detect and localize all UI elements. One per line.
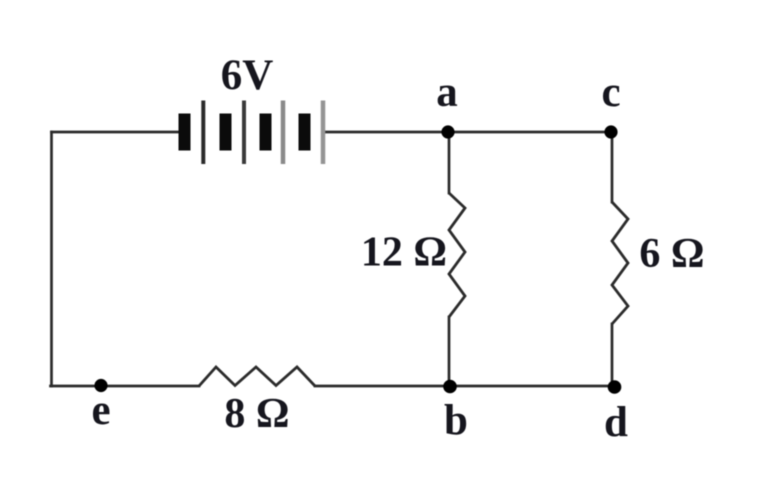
svg-text:8 Ω: 8 Ω: [224, 391, 289, 437]
resistor 12 ohm: [449, 193, 465, 317]
wire 12ohm to node b: [448, 317, 451, 387]
wire bottom left segment: [51, 385, 200, 388]
svg-text:d: d: [604, 399, 628, 446]
resistor 6 ohm: [612, 202, 628, 324]
svg-text:12 Ω: 12 Ω: [361, 230, 447, 276]
resistor 8 ohm: [199, 367, 315, 386]
node c: [604, 125, 617, 138]
wire node c down: [611, 132, 614, 202]
svg-text:b: b: [444, 397, 468, 444]
svg-text:a: a: [436, 69, 458, 116]
wire battery to node a: [325, 131, 448, 134]
node e: [94, 379, 107, 392]
svg-text:e: e: [91, 387, 110, 434]
battery 6V: [179, 101, 324, 165]
wire left vertical: [50, 132, 53, 386]
wire bottom right segment: [315, 385, 615, 388]
node d: [608, 380, 622, 394]
svg-text:6 Ω: 6 Ω: [639, 231, 704, 277]
wire node a to node c: [448, 131, 611, 134]
node b: [443, 380, 457, 394]
wire 6ohm to node d: [611, 324, 614, 387]
node a: [441, 125, 454, 138]
wire node a down: [448, 132, 451, 193]
svg-text:6V: 6V: [221, 52, 274, 99]
wire left horizontal: [52, 131, 181, 134]
svg-text:c: c: [601, 69, 620, 116]
